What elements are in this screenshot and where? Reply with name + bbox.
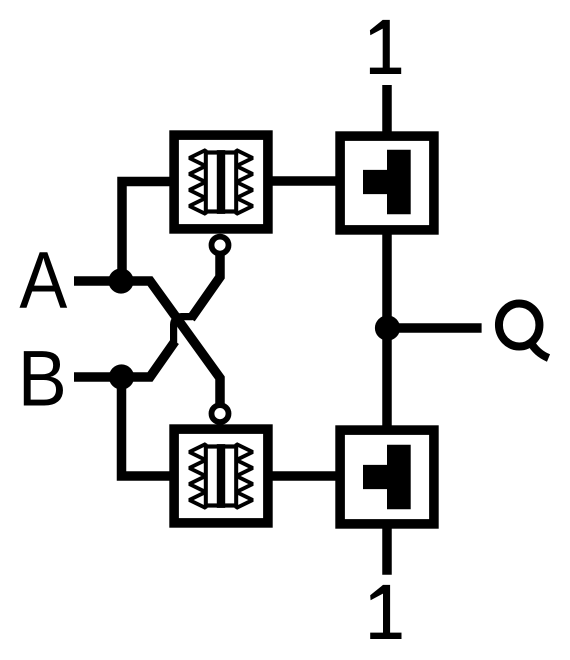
inverting bubble (upper junction box gate) <box>212 237 229 254</box>
wire Q lead <box>387 323 482 333</box>
wire A up to upper junction-box input <box>122 182 176 286</box>
wire U2 to U4 <box>267 471 340 481</box>
junction box U2 (bottom-left) <box>174 429 268 523</box>
wire B crossover diagonal upper segment to upper bubble <box>191 247 220 319</box>
supply label 1 (top) <box>370 20 401 74</box>
wire U3 output to node Q <box>382 229 392 328</box>
wire A lead <box>74 276 121 286</box>
island box U3 (top-right) <box>340 136 434 230</box>
svg-text:B: B <box>18 335 67 423</box>
wire bottom supply stem <box>382 523 392 575</box>
wire B crossover diagonal lower segment <box>122 341 176 377</box>
supply label 1 (bottom) <box>370 585 401 639</box>
wire top supply stem <box>382 85 392 136</box>
svg-text:A: A <box>19 236 67 326</box>
wire B lead <box>74 372 122 382</box>
wire A crossover diagonal to lower bubble <box>121 281 220 410</box>
node B junction dot <box>109 364 134 389</box>
label Q <box>499 304 549 359</box>
inverting bubble (lower junction box gate) <box>212 405 229 422</box>
wire node Q to U4 <box>382 328 392 430</box>
node A junction dot <box>108 268 133 293</box>
node Q junction dot <box>375 315 400 340</box>
wire hop arc over A wire <box>174 317 193 345</box>
island box U4 (bottom-right) <box>340 430 434 524</box>
junction box U1 (top-left) <box>174 135 268 229</box>
wire U1 to U3 <box>267 176 340 186</box>
wire B down to lower junction-box input <box>122 373 177 476</box>
